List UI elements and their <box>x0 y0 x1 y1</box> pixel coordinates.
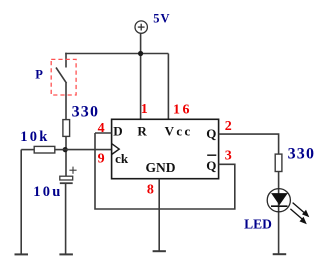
ground (capacitor) <box>59 253 73 255</box>
wire resistor through LED to ground <box>278 172 280 255</box>
wire capacitor to ground <box>65 183 67 254</box>
svg-text:16: 16 <box>173 103 192 118</box>
svg-text:Q: Q <box>206 158 216 173</box>
LED circle <box>267 189 290 212</box>
wire GND pin 8 to ground <box>158 179 160 252</box>
power supply +5V symbol <box>135 21 147 33</box>
resistor 330 (left) <box>63 120 70 137</box>
wire to Vcc pin 16 <box>167 54 169 120</box>
svg-text:1: 1 <box>141 102 148 117</box>
svg-text:2: 2 <box>225 119 232 134</box>
wire D pin stub <box>95 132 112 134</box>
svg-text:ck: ck <box>115 151 129 166</box>
LED cathode bar <box>271 205 288 207</box>
ground (IC pin 8) <box>153 250 166 252</box>
svg-text:LED: LED <box>244 217 272 232</box>
svg-text:330: 330 <box>288 146 316 163</box>
svg-text:D: D <box>113 123 122 138</box>
wire resistor to node to capacitor <box>65 136 67 176</box>
svg-text:9: 9 <box>98 152 105 167</box>
clock edge triangle <box>112 144 120 155</box>
switch blade <box>56 68 67 84</box>
resistor 330 (right) <box>275 154 282 171</box>
capacitor 10u bottom plate <box>60 182 73 184</box>
svg-text:R: R <box>137 123 147 138</box>
wire node to 10k resistor <box>55 149 65 151</box>
wire left rail down <box>20 150 22 255</box>
svg-text:3: 3 <box>225 149 232 164</box>
svg-text:Vcc: Vcc <box>165 123 193 138</box>
LED arrow 2 <box>290 209 306 224</box>
svg-text:330: 330 <box>72 103 100 120</box>
resistor 10k <box>34 146 55 153</box>
wire 10k to left rail <box>21 149 34 151</box>
wire node to ck pin 9 <box>65 149 111 151</box>
svg-text:GND: GND <box>146 160 176 175</box>
wire power to R pin 1 <box>140 33 142 119</box>
wire switch to resistor 330 <box>65 83 67 120</box>
LED anode triangle <box>271 193 288 205</box>
svg-text:10k: 10k <box>20 129 49 145</box>
wire feedback Qbar to D <box>95 133 235 209</box>
capacitor plus sign <box>69 167 76 174</box>
IC flip-flop body U1 <box>112 119 219 178</box>
ground (10k) <box>15 253 29 255</box>
wire switch top stub <box>65 53 67 68</box>
svg-text:8: 8 <box>147 183 154 198</box>
pushbutton P dashed outline <box>51 59 76 95</box>
wire Q pin 2 to resistor <box>219 134 279 154</box>
svg-text:P: P <box>35 67 43 81</box>
wire top horizontal rail <box>65 53 168 55</box>
capacitor 10u top plate <box>60 176 73 180</box>
LED arrow 1 <box>293 203 310 218</box>
svg-text:5V: 5V <box>153 12 170 26</box>
svg-text:10u: 10u <box>33 184 62 200</box>
node junction RC <box>63 147 68 152</box>
node junction on power rail <box>138 51 143 56</box>
svg-text:Q: Q <box>206 126 216 141</box>
ground (LED) <box>273 253 287 255</box>
